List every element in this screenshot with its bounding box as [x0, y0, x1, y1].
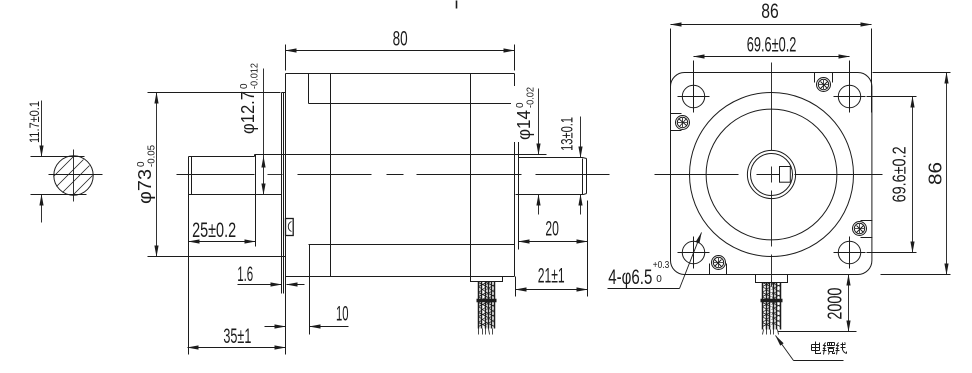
dim 86 top [670, 29, 672, 113]
svg-text:13±0.1: 13±0.1 [558, 117, 577, 151]
svg-text:20: 20 [545, 217, 559, 240]
svg-text:4-φ6.5: 4-φ6.5 [608, 266, 652, 289]
dim 25±0.2 [188, 195, 190, 355]
centerline vertical [73, 150, 75, 202]
screw L [671, 114, 682, 131]
rear shaft [519, 157, 583, 159]
flat bottom line [31, 194, 87, 196]
dim 80 [285, 45, 287, 71]
svg-text:21±1: 21±1 [538, 265, 565, 288]
svg-text:+0.3: +0.3 [653, 260, 670, 271]
screw BL [710, 264, 727, 275]
cable exit box side [471, 277, 503, 282]
dim phi12.7 [263, 69, 265, 157]
bolt hole TR [838, 85, 860, 107]
svg-text:φ73: φ73 [134, 169, 155, 204]
dim 13±0.1 [580, 117, 582, 158]
centerline vertical [771, 63, 773, 287]
svg-text:25±0.2: 25±0.2 [192, 219, 236, 242]
dim 21±1 [515, 277, 517, 297]
svg-text:-0.02: -0.02 [526, 87, 537, 108]
svg-text:1.6: 1.6 [237, 263, 253, 286]
svg-text:-0.012: -0.012 [250, 63, 261, 89]
cable braid front [763, 283, 781, 330]
front pilot boss [281, 93, 283, 294]
body outline [285, 74, 287, 355]
rear boss line [518, 104, 520, 250]
shaft inner circle [751, 154, 793, 196]
svg-text:11.7±0.1: 11.7±0.1 [26, 101, 42, 143]
svg-text:0: 0 [656, 274, 662, 285]
centerline horizontal [655, 174, 883, 176]
svg-text:69.6±0.2: 69.6±0.2 [747, 33, 797, 56]
phi14 text mask [511, 86, 535, 142]
cable exit box front [756, 275, 788, 283]
svg-text:69.6±0.2: 69.6±0.2 [889, 146, 910, 202]
svg-text:φ12.7: φ12.7 [237, 91, 258, 134]
keyway [780, 167, 791, 183]
label 电缆线 [812, 342, 847, 355]
front shaft [189, 156, 255, 158]
svg-text:80: 80 [393, 28, 408, 51]
svg-text:0: 0 [515, 102, 526, 108]
wire ends front [763, 330, 779, 335]
cable clamp band [477, 299, 497, 302]
dim 2000 [778, 331, 857, 333]
boss circle [690, 93, 854, 257]
shaft section circle [54, 156, 93, 195]
label cable leader [794, 360, 844, 362]
bolt hole BL [682, 241, 704, 263]
flat top extension line [31, 156, 85, 158]
inner circle [706, 109, 837, 240]
svg-text:86: 86 [761, 0, 779, 23]
dim phi73 [148, 92, 281, 94]
shaft outer circle [747, 150, 795, 198]
svg-text:φ14: φ14 [513, 110, 534, 140]
cable clamp band front [761, 299, 783, 302]
hatch lines [54, 157, 93, 196]
svg-text:0: 0 [136, 161, 147, 167]
dim 35±1 [188, 347, 286, 349]
dim 1.6 [238, 284, 282, 286]
flange square [671, 73, 872, 275]
svg-text:86: 86 [925, 162, 946, 185]
centerline [177, 174, 610, 176]
label 4-phi6.5 [608, 288, 680, 290]
screw R [861, 221, 873, 238]
wire ends [479, 329, 493, 335]
dim 69.6±0.2 right [867, 96, 917, 98]
svg-text:35±1: 35±1 [223, 325, 251, 348]
dim 69.6±0.2 top [693, 61, 695, 113]
stray tick top [456, 1, 458, 9]
screw TR [815, 73, 833, 83]
dim 10 [265, 326, 286, 328]
face clip detail [286, 219, 294, 236]
bolt hole BR [838, 241, 860, 263]
phi14 shaft line through body [255, 154, 547, 156]
svg-text:10: 10 [336, 303, 349, 326]
dimension 11.7±0.1 [41, 101, 43, 157]
inner step lines [309, 103, 515, 105]
dim 20 [518, 197, 520, 247]
svg-text:0: 0 [239, 83, 250, 89]
bolt hole TL [682, 85, 704, 107]
dim 86 right [873, 72, 951, 74]
cable braid side [479, 282, 495, 329]
svg-text:-0.05: -0.05 [146, 145, 157, 167]
svg-text:2000: 2000 [825, 288, 847, 320]
centerline horizontal [49, 174, 103, 176]
dim phi14 [538, 89, 540, 155]
